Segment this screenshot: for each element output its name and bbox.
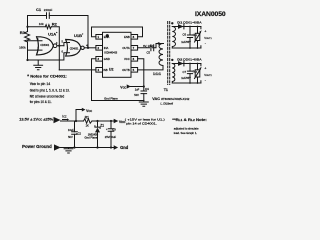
svg-text:VCC: VCC: [86, 109, 92, 113]
svg-text:CD4001: CD4001: [70, 48, 79, 51]
svg-text:OUTB: OUTB: [122, 68, 130, 72]
svg-text:1K: 1K: [86, 123, 90, 127]
svg-text:C3: C3: [112, 127, 116, 131]
svg-text:GND: GND: [104, 57, 110, 61]
svg-text:C4: C4: [145, 87, 149, 91]
svg-text:160k: 160k: [19, 45, 26, 49]
svg-text:CD4001: CD4001: [40, 44, 49, 47]
svg-text:U2: U2: [109, 67, 114, 71]
svg-text:R3: R3: [20, 30, 26, 35]
svg-text:U1B: U1B: [74, 33, 82, 38]
svg-text:T1: T1: [164, 88, 168, 92]
svg-text:220pF: 220pF: [44, 8, 53, 12]
svg-text:1:1:1: 1:1:1: [153, 72, 161, 76]
svg-text:50V: 50V: [68, 135, 73, 139]
svg-text:VAC: VAC: [152, 97, 160, 101]
svg-text:1uF/35V: 1uF/35V: [181, 41, 191, 44]
svg-text:VDD to pin 14: VDD to pin 14: [30, 82, 51, 86]
svg-text:IXDN404SI: IXDN404SI: [104, 51, 117, 55]
svg-text:R2: R2: [52, 22, 58, 27]
svg-text:C1: C1: [36, 7, 42, 12]
svg-text:25V/10uF: 25V/10uF: [105, 135, 117, 139]
svg-text:adjusted to simulate: adjusted to simulate: [174, 126, 199, 130]
svg-text:Gnd to pins 1, 5, 8, 9, 12 & 1: Gnd to pins 1, 5, 8, 9, 12 & 13.: [30, 88, 70, 92]
svg-text:10uF: 10uF: [68, 128, 74, 132]
svg-text:pin 14 of CD4001.: pin 14 of CD4001.: [126, 121, 157, 125]
svg-text:50V: 50V: [134, 93, 139, 97]
svg-text:1uF: 1uF: [135, 88, 140, 92]
svg-text:ICC: ICC: [62, 115, 67, 119]
svg-text:13.5V ± 2VCC ±25%: 13.5V ± 2VCC ±25%: [19, 118, 53, 122]
svg-text:-: -: [205, 41, 206, 45]
svg-text:#T60403-F6025-X142: #T60403-F6025-X142: [161, 98, 190, 101]
svg-text:C7: C7: [183, 70, 187, 74]
svg-text:10k: 10k: [39, 22, 44, 26]
svg-text:load. See Graph 1.: load. See Graph 1.: [174, 131, 198, 135]
svg-text:( +15V or less for U1.): ( +15V or less for U1.): [125, 118, 165, 122]
svg-text:for pins 10 & 11.: for pins 10 & 11.: [30, 100, 52, 104]
svg-text:C6: C6: [183, 32, 187, 36]
svg-text:L. DiLiberti: L. DiLiberti: [161, 102, 174, 106]
svg-text:ENB: ENB: [124, 35, 130, 39]
svg-text:VCC: VCC: [124, 57, 130, 61]
svg-text:+: +: [204, 29, 206, 33]
svg-text:-: -: [205, 78, 206, 82]
svg-text:NC at leave unconnected: NC at leave unconnected: [30, 95, 65, 99]
svg-text:ENA: ENA: [104, 35, 110, 39]
svg-text:C5: C5: [147, 50, 151, 54]
svg-text:OUTA: OUTA: [122, 46, 129, 50]
svg-text:+: +: [106, 127, 108, 131]
svg-text:Gnd Plane: Gnd Plane: [85, 135, 98, 139]
svg-text:+: +: [204, 66, 206, 70]
svg-text:D2 DD01-40BA: D2 DD01-40BA: [177, 58, 202, 62]
svg-text:INB: INB: [103, 69, 108, 72]
svg-text:VCC: VCC: [120, 86, 126, 90]
svg-text:Gnd Plane: Gnd Plane: [104, 97, 118, 101]
svg-text:IXAN0050: IXAN0050: [195, 11, 226, 18]
svg-text:* Notes for CD4001:: * Notes for CD4001:: [27, 74, 66, 79]
svg-text:D1 DD01-40BA: D1 DD01-40BA: [177, 21, 202, 25]
svg-text:R1: R1: [85, 116, 89, 120]
svg-text:1uF/35V: 1uF/35V: [181, 77, 191, 80]
svg-text:6V, 10uF: 6V, 10uF: [143, 44, 154, 48]
svg-text:Gnd: Gnd: [120, 145, 129, 150]
svg-text:INA: INA: [104, 46, 109, 50]
svg-text:**RL1 & RL2 Note:: **RL1 & RL2 Note:: [172, 117, 207, 122]
svg-text:Power Ground: Power Ground: [22, 144, 52, 149]
svg-text:+C2: +C2: [76, 131, 82, 135]
svg-text:U1A: U1A: [48, 32, 56, 37]
svg-text:Z1: Z1: [100, 124, 104, 128]
